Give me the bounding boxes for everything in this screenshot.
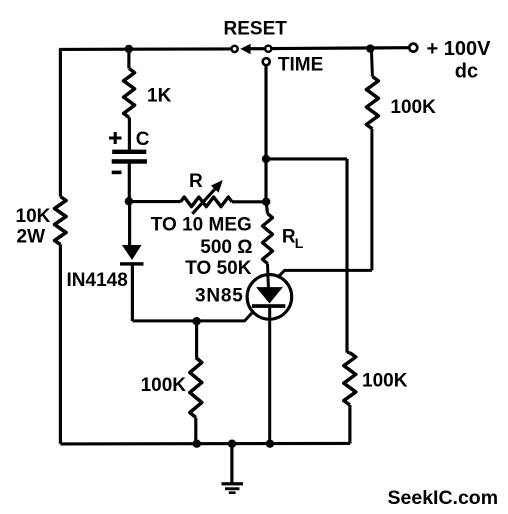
svg-text:R: R [282, 227, 296, 248]
svg-text:1K: 1K [147, 86, 172, 107]
svg-text:C: C [136, 129, 150, 150]
svg-text:2W: 2W [17, 227, 46, 248]
svg-text:TO 50K: TO 50K [185, 258, 251, 279]
svg-text:100K: 100K [390, 97, 436, 118]
svg-text:L: L [295, 235, 304, 251]
svg-text:TIME: TIME [278, 54, 323, 75]
svg-text:100K: 100K [362, 371, 408, 392]
svg-text:R: R [189, 171, 203, 192]
svg-text:500 Ω: 500 Ω [200, 237, 252, 258]
svg-text:+ 100V: + 100V [427, 38, 492, 60]
svg-text:TO 10 MEG: TO 10 MEG [151, 214, 252, 235]
svg-text:IN4148: IN4148 [67, 270, 128, 291]
svg-text:3N85: 3N85 [195, 286, 244, 307]
svg-text:100K: 100K [141, 375, 187, 396]
svg-text:10K: 10K [16, 206, 51, 227]
svg-text:RESET: RESET [224, 18, 288, 39]
svg-text:SeekIC.com: SeekIC.com [388, 487, 499, 509]
svg-text:dc: dc [455, 61, 478, 83]
